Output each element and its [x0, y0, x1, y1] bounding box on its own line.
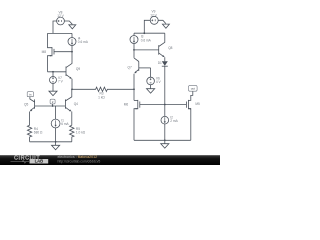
wire V8 left lead: [53, 21, 57, 33]
svg-text:2 mA: 2 mA: [170, 119, 178, 123]
svg-text:in: in: [29, 93, 32, 97]
node dot gate bus: [164, 104, 166, 106]
svg-text:http://circuitlab.com/c6ddcv5: http://circuitlab.com/c6ddcv5: [58, 159, 101, 163]
svg-text:6 mA: 6 mA: [61, 122, 69, 126]
nmos M6: [134, 99, 138, 101]
net label box node2: [50, 99, 55, 104]
ground G6: [164, 140, 166, 143]
svg-text:Q4: Q4: [74, 102, 78, 106]
svg-text:Q8: Q8: [168, 46, 172, 50]
svg-text:M5: M5: [195, 102, 200, 106]
resistor R3: [72, 87, 134, 91]
wire base bus: [35, 105, 66, 107]
wire gate bus right: [140, 104, 187, 106]
wire bottom rail left: [30, 141, 72, 143]
resistor R4: [27, 125, 31, 142]
logo LAB row: [11, 161, 30, 163]
svg-text:7 V: 7 V: [58, 80, 64, 84]
svg-text:0.6 mA: 0.6 mA: [141, 38, 152, 42]
npn Q8: [158, 45, 160, 55]
wire V8 right lead: [65, 21, 73, 24]
node dot V7 top: [52, 71, 54, 73]
current source I2: [161, 116, 169, 124]
diode D1: [162, 61, 168, 66]
voltage source V6: [150, 68, 152, 77]
footer bar: [0, 155, 220, 165]
svg-text:1.0 kΩ: 1.0 kΩ: [76, 131, 86, 135]
resistor R5: [70, 125, 74, 142]
node dot V9 rail: [143, 32, 145, 34]
wire top rail right circuit: [134, 32, 165, 34]
svg-text:4 V: 4 V: [156, 80, 162, 84]
voltage source V7: [52, 72, 54, 91]
wire M8 gate: [54, 51, 72, 53]
svg-text:1 kΩ: 1 kΩ: [98, 95, 105, 99]
ground G4: [147, 89, 155, 94]
svg-text:12 V: 12 V: [150, 13, 157, 17]
node dot I2 bottom: [164, 139, 166, 141]
nmos M5: [185, 102, 187, 108]
svg-text:680 Ω: 680 Ω: [34, 131, 43, 135]
svg-text:M6: M6: [124, 102, 129, 106]
svg-text:12 V: 12 V: [57, 14, 64, 18]
net label box out: [189, 85, 198, 91]
svg-text:Q5: Q5: [24, 103, 28, 107]
current source I4: [71, 33, 73, 51]
wire V9 right lead: [158, 20, 166, 23]
current source I1: [55, 106, 57, 142]
svg-text:Q7: Q7: [128, 65, 132, 69]
ground G3: [162, 24, 169, 28]
wire Q9 base: [48, 71, 67, 73]
ground G2: [49, 91, 57, 96]
ground G1: [69, 25, 76, 29]
svg-text:D1: D1: [158, 61, 162, 65]
npn Q9: [65, 67, 67, 77]
svg-text:Q9: Q9: [76, 67, 80, 71]
node dot gate/I4: [71, 51, 73, 53]
node dot bus: [52, 105, 54, 107]
svg-text:out: out: [191, 87, 195, 91]
svg-text:M8: M8: [42, 50, 47, 54]
nmos M8: [48, 33, 53, 47]
wire bottom rail right: [134, 139, 191, 141]
node dot Q8 base: [133, 49, 135, 51]
wire Q8 base: [134, 49, 159, 51]
svg-text:LAB: LAB: [35, 159, 44, 164]
node dot R3 left: [71, 88, 73, 90]
voltage source V9: [150, 16, 158, 24]
wire top rail left circuit: [48, 32, 73, 34]
voltage source V8: [57, 17, 65, 25]
npn Q5: [27, 92, 33, 97]
ground G5: [55, 142, 57, 146]
npn Q4: [65, 89, 71, 101]
wire V9 left lead: [144, 20, 150, 33]
svg-text:0.6 mA: 0.6 mA: [78, 40, 89, 44]
node dot R3 right: [133, 88, 135, 90]
npn Q7: [134, 58, 139, 62]
current source I3: [133, 33, 135, 58]
svg-text:electronics : filatova2012: electronics : filatova2012: [58, 155, 98, 159]
node dot I1 bottom: [55, 141, 57, 143]
